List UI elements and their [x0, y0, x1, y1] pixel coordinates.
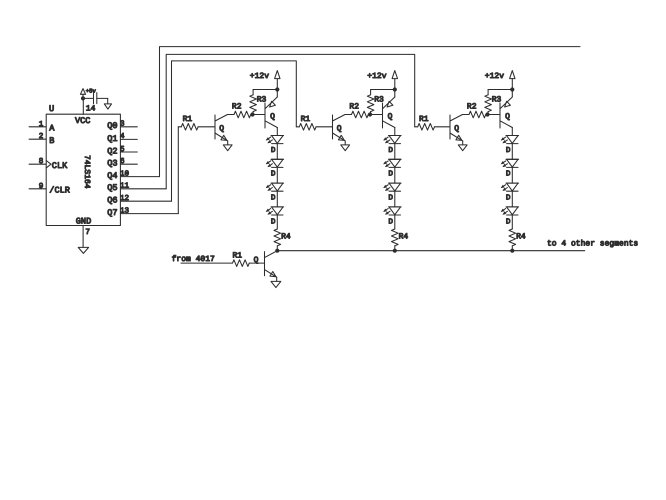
svg-text:Q6: Q6 — [107, 196, 117, 206]
IC U pin 7 GND stub — [83, 226, 90, 248]
transistor Q NPN (stage 1) — [215, 115, 228, 141]
svg-text:+12v: +12v — [485, 72, 504, 81]
wire LED2 to LED3 (stage 1) — [276, 167, 278, 183]
svg-text:R4: R4 — [516, 232, 526, 241]
LED D (stage 1 #1) — [266, 136, 284, 155]
svg-text:11: 11 — [120, 183, 130, 191]
wire LED3 to LED4 (stage 3) — [511, 191, 513, 207]
svg-text:Q4: Q4 — [107, 171, 117, 181]
svg-text:D: D — [271, 218, 276, 226]
svg-text:74LS164: 74LS164 — [82, 155, 91, 189]
svg-text:Q5: Q5 — [107, 183, 117, 193]
LED D (stage 3 #2) — [501, 159, 519, 178]
svg-text:Q: Q — [388, 112, 393, 121]
svg-text:8: 8 — [39, 157, 44, 166]
ground (IC U) — [78, 247, 88, 253]
svg-text:13: 13 — [120, 206, 130, 215]
svg-text:/CLR: /CLR — [49, 186, 70, 196]
svg-text:Q3: Q3 — [107, 159, 117, 169]
wire net Q7 to segment driver 1 — [177, 127, 179, 214]
svg-text:3: 3 — [120, 120, 125, 129]
svg-text:Q0: Q0 — [107, 121, 117, 131]
svg-text:R2: R2 — [349, 103, 359, 112]
resistor R3 (stage 2) — [367, 90, 395, 115]
svg-text:A: A — [49, 124, 55, 134]
transistor Q PNP (stage 3) — [488, 90, 513, 136]
IC U pin 12 Q6 — [107, 194, 171, 206]
svg-text:VCC: VCC — [75, 116, 90, 126]
resistor R3 (stage 1) — [250, 90, 277, 115]
svg-text:Q2: Q2 — [107, 146, 117, 156]
svg-text:D: D — [506, 195, 511, 203]
resistor R1 (stage 3) — [415, 115, 450, 130]
wire capacitor to ground — [97, 98, 108, 104]
ground (digit driver) — [271, 281, 281, 287]
wire LED3 to LED4 (stage 1) — [276, 191, 278, 207]
LED D (stage 3 #3) — [501, 183, 519, 202]
LED D (stage 3 #1) — [501, 136, 519, 155]
svg-text:+12v: +12v — [367, 72, 386, 81]
ground (capacitor) — [104, 104, 111, 109]
svg-text:R1: R1 — [419, 115, 429, 124]
svg-text:+5v: +5v — [86, 88, 97, 95]
resistor R1 (stage 1) — [178, 115, 215, 130]
resistor R2 (stage 3) — [463, 103, 488, 118]
LED D (stage 1 #2) — [266, 159, 284, 178]
svg-text:D: D — [506, 147, 511, 155]
svg-text:7: 7 — [85, 228, 90, 237]
resistor R2 (stage 1) — [228, 103, 253, 118]
wire LED4 to R4 (stage 2) — [394, 215, 396, 229]
+12v power supply symbol (stage 3) — [485, 71, 515, 90]
svg-text:+12v: +12v — [250, 72, 269, 81]
resistor R1 (digit driver) — [233, 252, 265, 267]
LED D (stage 2 #2) — [383, 159, 401, 178]
IC U 74LS164 body — [46, 104, 120, 227]
svg-text:D: D — [506, 171, 511, 179]
svg-text:Q: Q — [270, 112, 275, 121]
svg-text:Q: Q — [337, 125, 342, 134]
resistor R4 (stage 3) — [509, 229, 526, 251]
svg-text:14: 14 — [86, 105, 96, 114]
wire NPN emitter to ground (stage 1) — [227, 141, 229, 145]
+5v power supply symbol — [80, 88, 96, 99]
svg-text:D: D — [506, 218, 511, 226]
svg-text:D: D — [271, 171, 276, 179]
svg-text:CLK: CLK — [52, 161, 68, 171]
wire net Q6 to segment driver 2 — [172, 61, 297, 201]
wire VCC to capacitor — [83, 97, 94, 99]
ground (NPN (stage 3)) — [458, 145, 467, 151]
capacitor C decoupling — [94, 93, 97, 104]
IC U pin 2 B — [29, 132, 54, 146]
svg-text:D: D — [271, 195, 276, 203]
wire LED4 to R4 (stage 1) — [276, 215, 278, 229]
wire LED2 to LED3 (stage 3) — [511, 167, 513, 183]
node base junction (stage 1) — [250, 112, 254, 116]
transistor Q PNP (stage 2) — [370, 90, 395, 136]
resistor R4 (stage 1) — [274, 229, 291, 251]
node +12v junction (stage 1) — [275, 87, 279, 91]
wire NPN emitter to ground (stage 3) — [462, 141, 464, 145]
svg-text:U: U — [49, 104, 54, 114]
IC U pin 4 Q1 — [107, 133, 137, 144]
svg-text:10: 10 — [120, 169, 130, 178]
node base junction (stage 3) — [485, 112, 489, 116]
node R4 to common rail (stage 2) — [393, 249, 397, 253]
resistor R2 (stage 2) — [345, 103, 370, 118]
node R4 to common rail (stage 3) — [510, 249, 514, 253]
node R4 to common rail (stage 1) — [275, 249, 279, 253]
svg-text:R2: R2 — [232, 103, 242, 112]
IC U pin 14 VCC stub — [83, 98, 95, 114]
wire from 4017 input — [181, 262, 233, 264]
IC U pin 10 Q4 — [107, 169, 159, 181]
ground (NPN (stage 2)) — [341, 145, 350, 151]
wire LED3 to LED4 (stage 2) — [394, 191, 396, 207]
svg-text:to 4 other segments: to 4 other segments — [547, 240, 638, 249]
svg-text:5: 5 — [120, 146, 125, 154]
wire common segment rail — [277, 250, 584, 252]
node VCC junction — [81, 96, 85, 100]
IC U pin 9 /CLR — [29, 182, 70, 196]
svg-text:6: 6 — [120, 157, 125, 166]
svg-text:Q7: Q7 — [107, 208, 117, 218]
+12v power supply symbol (stage 2) — [367, 71, 397, 90]
transistor Q PNP (stage 1) — [253, 90, 278, 136]
svg-text:Q: Q — [254, 256, 259, 265]
IC U pin 3 Q0 — [107, 120, 137, 132]
svg-text:R1: R1 — [301, 115, 311, 124]
transistor Q NPN (digit driver) — [254, 251, 278, 278]
IC U pin 8 CLK — [29, 157, 68, 171]
svg-text:R2: R2 — [467, 103, 477, 112]
IC U pin 6 Q3 — [107, 157, 137, 169]
svg-text:Q1: Q1 — [107, 134, 117, 144]
wire LED1 to LED2 (stage 1) — [276, 144, 278, 160]
svg-text:D: D — [271, 147, 276, 155]
wire LED2 to LED3 (stage 2) — [394, 167, 396, 183]
IC U pin 13 Q7 — [107, 206, 178, 218]
svg-text:Q: Q — [505, 112, 510, 121]
transistor Q NPN (stage 3) — [450, 115, 463, 141]
LED D (stage 2 #3) — [383, 183, 401, 202]
svg-text:2: 2 — [39, 132, 44, 141]
svg-text:12: 12 — [120, 194, 130, 203]
node base junction (stage 2) — [368, 112, 372, 116]
node +12v junction (stage 2) — [393, 87, 397, 91]
svg-text:B: B — [49, 136, 54, 146]
svg-text:D: D — [388, 171, 393, 179]
LED D (stage 2 #1) — [383, 136, 401, 155]
transistor Q NPN (stage 2) — [333, 115, 346, 141]
svg-text:R4: R4 — [399, 232, 409, 241]
wire LED4 to R4 (stage 3) — [511, 215, 513, 229]
svg-text:Q: Q — [219, 125, 224, 134]
node +12v junction (stage 3) — [510, 87, 514, 91]
wire net Q5 to segment driver 3 — [166, 54, 415, 188]
wire NPN emitter to ground (stage 2) — [344, 141, 346, 145]
ground (NPN (stage 1)) — [223, 145, 232, 151]
IC U pin 5 Q2 — [107, 146, 137, 157]
svg-text:R1: R1 — [233, 252, 243, 261]
resistor R3 (stage 3) — [485, 90, 513, 115]
LED D (stage 2 #4) — [383, 207, 401, 226]
svg-text:D: D — [388, 195, 393, 203]
LED D (stage 3 #4) — [501, 207, 519, 226]
wire digit driver emitter to ground — [276, 277, 278, 281]
IC U pin 11 Q5 — [107, 183, 166, 194]
wire LED1 to LED2 (stage 3) — [511, 144, 513, 160]
svg-text:R4: R4 — [281, 232, 291, 241]
svg-text:GND: GND — [76, 217, 91, 227]
LED D (stage 1 #4) — [266, 207, 284, 226]
svg-text:D: D — [388, 147, 393, 155]
+12v power supply symbol (stage 1) — [250, 71, 280, 90]
wire net Q4 to other segment drivers (top rail) — [160, 47, 581, 177]
LED D (stage 1 #3) — [266, 183, 284, 202]
IC U pin 1 A — [29, 121, 55, 134]
resistor R1 (stage 2) — [296, 115, 332, 130]
svg-text:9: 9 — [39, 182, 44, 191]
svg-text:D: D — [388, 218, 393, 226]
wire LED1 to LED2 (stage 2) — [394, 144, 396, 160]
resistor R4 (stage 2) — [392, 229, 409, 251]
svg-text:1: 1 — [39, 121, 44, 129]
svg-text:R1: R1 — [183, 115, 193, 124]
svg-text:4: 4 — [120, 133, 125, 141]
svg-text:Q: Q — [454, 125, 459, 134]
